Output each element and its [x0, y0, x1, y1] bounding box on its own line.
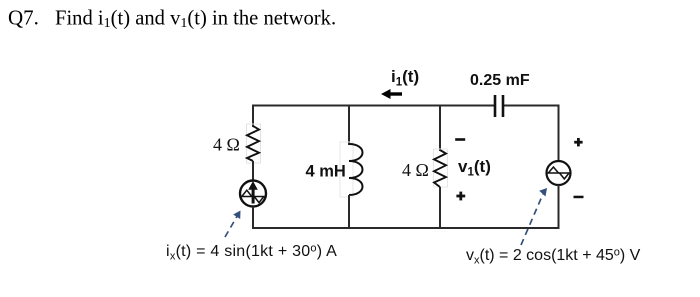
wire middle branch upper [439, 106, 441, 152]
wire left branch lower [252, 207, 254, 230]
inductor L1 selection box [340, 142, 353, 197]
wire bottom [253, 227, 559, 229]
wire top-left segment (node A to capacitor) [253, 105, 495, 107]
resistor R-mid 4ohm selection box [434, 149, 448, 187]
label VS1 plus sign [574, 138, 582, 146]
wire middle branch lower [439, 187, 441, 229]
annotation arrow to voltage source [521, 188, 547, 245]
voltage source VS1 circle [547, 161, 571, 185]
current source IS1 circle [240, 181, 266, 207]
current source IS1 arrow [248, 181, 258, 204]
svg-text:i1(t): i1(t) [391, 67, 419, 89]
wire top-right segment (capacitor to right corner) [503, 105, 559, 107]
wire right branch lower [558, 185, 560, 229]
svg-text:vx(t) = 2 cos(1kt + 45o) V: vx(t) = 2 cos(1kt + 45o) V [466, 247, 641, 267]
inductor L1 coils [349, 144, 363, 195]
svg-text:4 mH: 4 mH [306, 163, 346, 181]
title text [8, 6, 336, 32]
resistor R-left 4ohm zigzag [247, 126, 259, 161]
wire right branch upper [558, 105, 560, 162]
wire inductor branch upper [348, 106, 350, 146]
svg-text:v1(t): v1(t) [458, 157, 491, 179]
label VS1 minus sign [574, 196, 584, 199]
svg-text:ix(t) = 4 sin(1kt + 30o) A: ix(t) = 4 sin(1kt + 30o) A [166, 243, 337, 263]
current source IS1 sine symbol [242, 190, 265, 202]
annotation arrow to current source [225, 211, 241, 238]
voltage source VS1 sine symbol [548, 167, 570, 179]
svg-text:4 Ω: 4 Ω [402, 160, 429, 180]
wire left branch between resistor and current source [252, 161, 254, 181]
svg-text:0.25 mF: 0.25 mF [470, 72, 530, 89]
capacitor C1 right plate [502, 95, 505, 117]
svg-text:Q7.: Q7. [8, 6, 39, 30]
resistor R-mid 4ohm zigzag [434, 150, 446, 187]
wire inductor branch lower [348, 195, 350, 229]
svg-text:Find i1(t) and v1(t) in the ne: Find i1(t) and v1(t) in the network. [55, 8, 336, 32]
label v1(t) minus sign [455, 138, 465, 141]
current i1(t) arrow [381, 89, 402, 99]
wire left branch upper [252, 105, 254, 128]
resistor R-left 4ohm selection box [247, 124, 261, 163]
svg-text:4 Ω: 4 Ω [213, 135, 240, 155]
label v1(t) plus sign [456, 192, 465, 201]
capacitor C1 left plate [494, 95, 497, 117]
